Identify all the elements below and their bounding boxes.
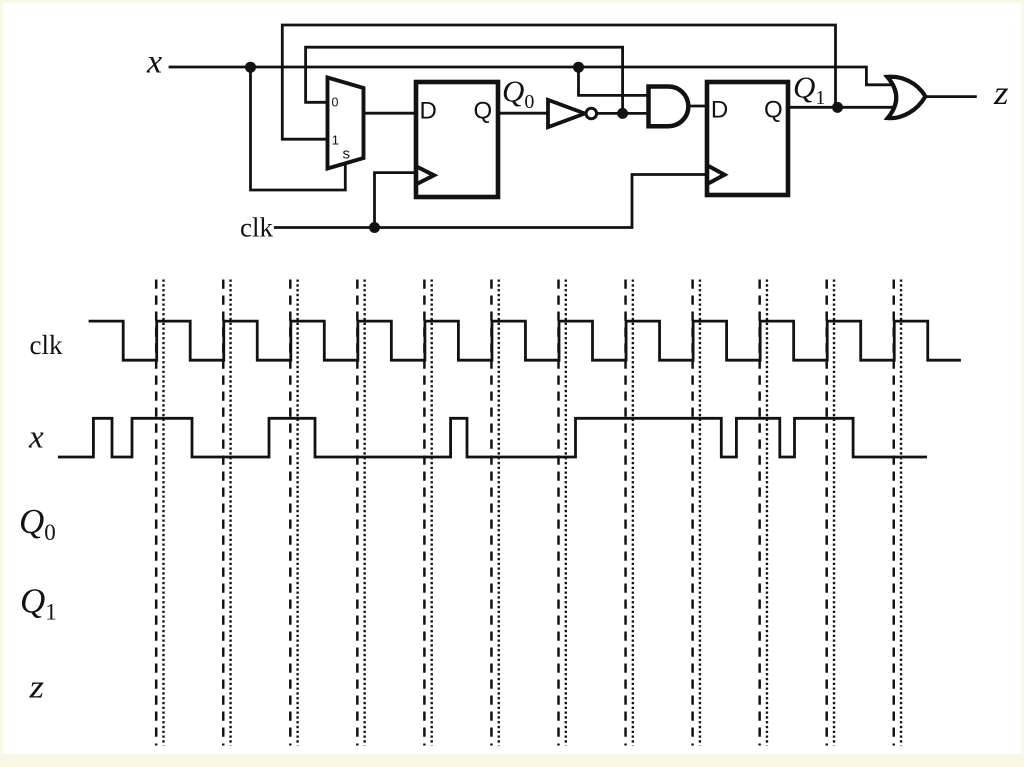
clock edge marker 3 <box>290 280 297 746</box>
svg-text:x: x <box>146 43 162 80</box>
OR gate <box>887 77 925 118</box>
svg-text:D: D <box>711 97 728 124</box>
clock edge marker 8 <box>626 280 633 746</box>
clock edge marker 9 <box>693 280 700 746</box>
svg-text:s: s <box>343 145 351 162</box>
wire x to mux select <box>251 67 346 190</box>
clock edge markers (dashed = clock edge, dotted = after edge) <box>156 280 901 746</box>
wire Q1 feedback top <box>282 25 835 139</box>
svg-text:Q: Q <box>474 98 493 125</box>
clock edge marker 6 <box>491 280 498 746</box>
wire mux output to D of FF0 <box>364 112 417 115</box>
node Q1 junction <box>832 102 843 113</box>
clock edge marker 2 <box>223 280 230 746</box>
node x/select junction <box>245 62 256 73</box>
waveform x <box>59 418 925 457</box>
svg-text:1: 1 <box>332 133 339 148</box>
node x/AND junction <box>573 62 584 73</box>
multiplexer MUX <box>328 78 364 169</box>
inverter NOT gate <box>548 100 597 127</box>
clock edge marker 12 <box>894 280 901 746</box>
waveform clk <box>90 321 960 360</box>
wire Q1 output to OR <box>788 106 902 109</box>
AND gate <box>649 87 689 127</box>
node inverter-out/mux0 junction <box>617 108 628 119</box>
wire Q0 to inverter <box>498 112 548 115</box>
svg-text:Q: Q <box>764 97 783 124</box>
svg-text:clk: clk <box>30 330 63 360</box>
svg-text:z: z <box>28 669 44 705</box>
clock edge marker 10 <box>760 280 767 746</box>
wire inverter to AND lower input <box>597 112 650 115</box>
clock edge marker 1 <box>156 280 163 746</box>
node clk junction <box>369 222 380 233</box>
wire NOT-Q0 feedback to mux input 0 <box>306 47 623 113</box>
svg-text:x: x <box>28 420 44 456</box>
wire x to AND upper input <box>579 67 651 95</box>
svg-text:z: z <box>993 75 1009 112</box>
wire clk to FF0 <box>375 173 417 228</box>
svg-text:clk: clk <box>240 213 273 243</box>
wire clk line <box>275 175 707 228</box>
wire x input line <box>170 67 902 85</box>
flip-flop FF1 <box>707 82 788 195</box>
wire AND output to D of FF1 <box>689 105 708 108</box>
svg-text:0: 0 <box>332 96 339 110</box>
clock edge marker 4 <box>357 280 364 746</box>
flip-flop FF0 <box>416 82 498 197</box>
clock edge marker 5 <box>424 280 431 746</box>
wire z output <box>925 95 975 98</box>
svg-text:D: D <box>420 98 437 125</box>
clock edge marker 7 <box>559 280 566 746</box>
clock edge marker 11 <box>827 280 834 746</box>
